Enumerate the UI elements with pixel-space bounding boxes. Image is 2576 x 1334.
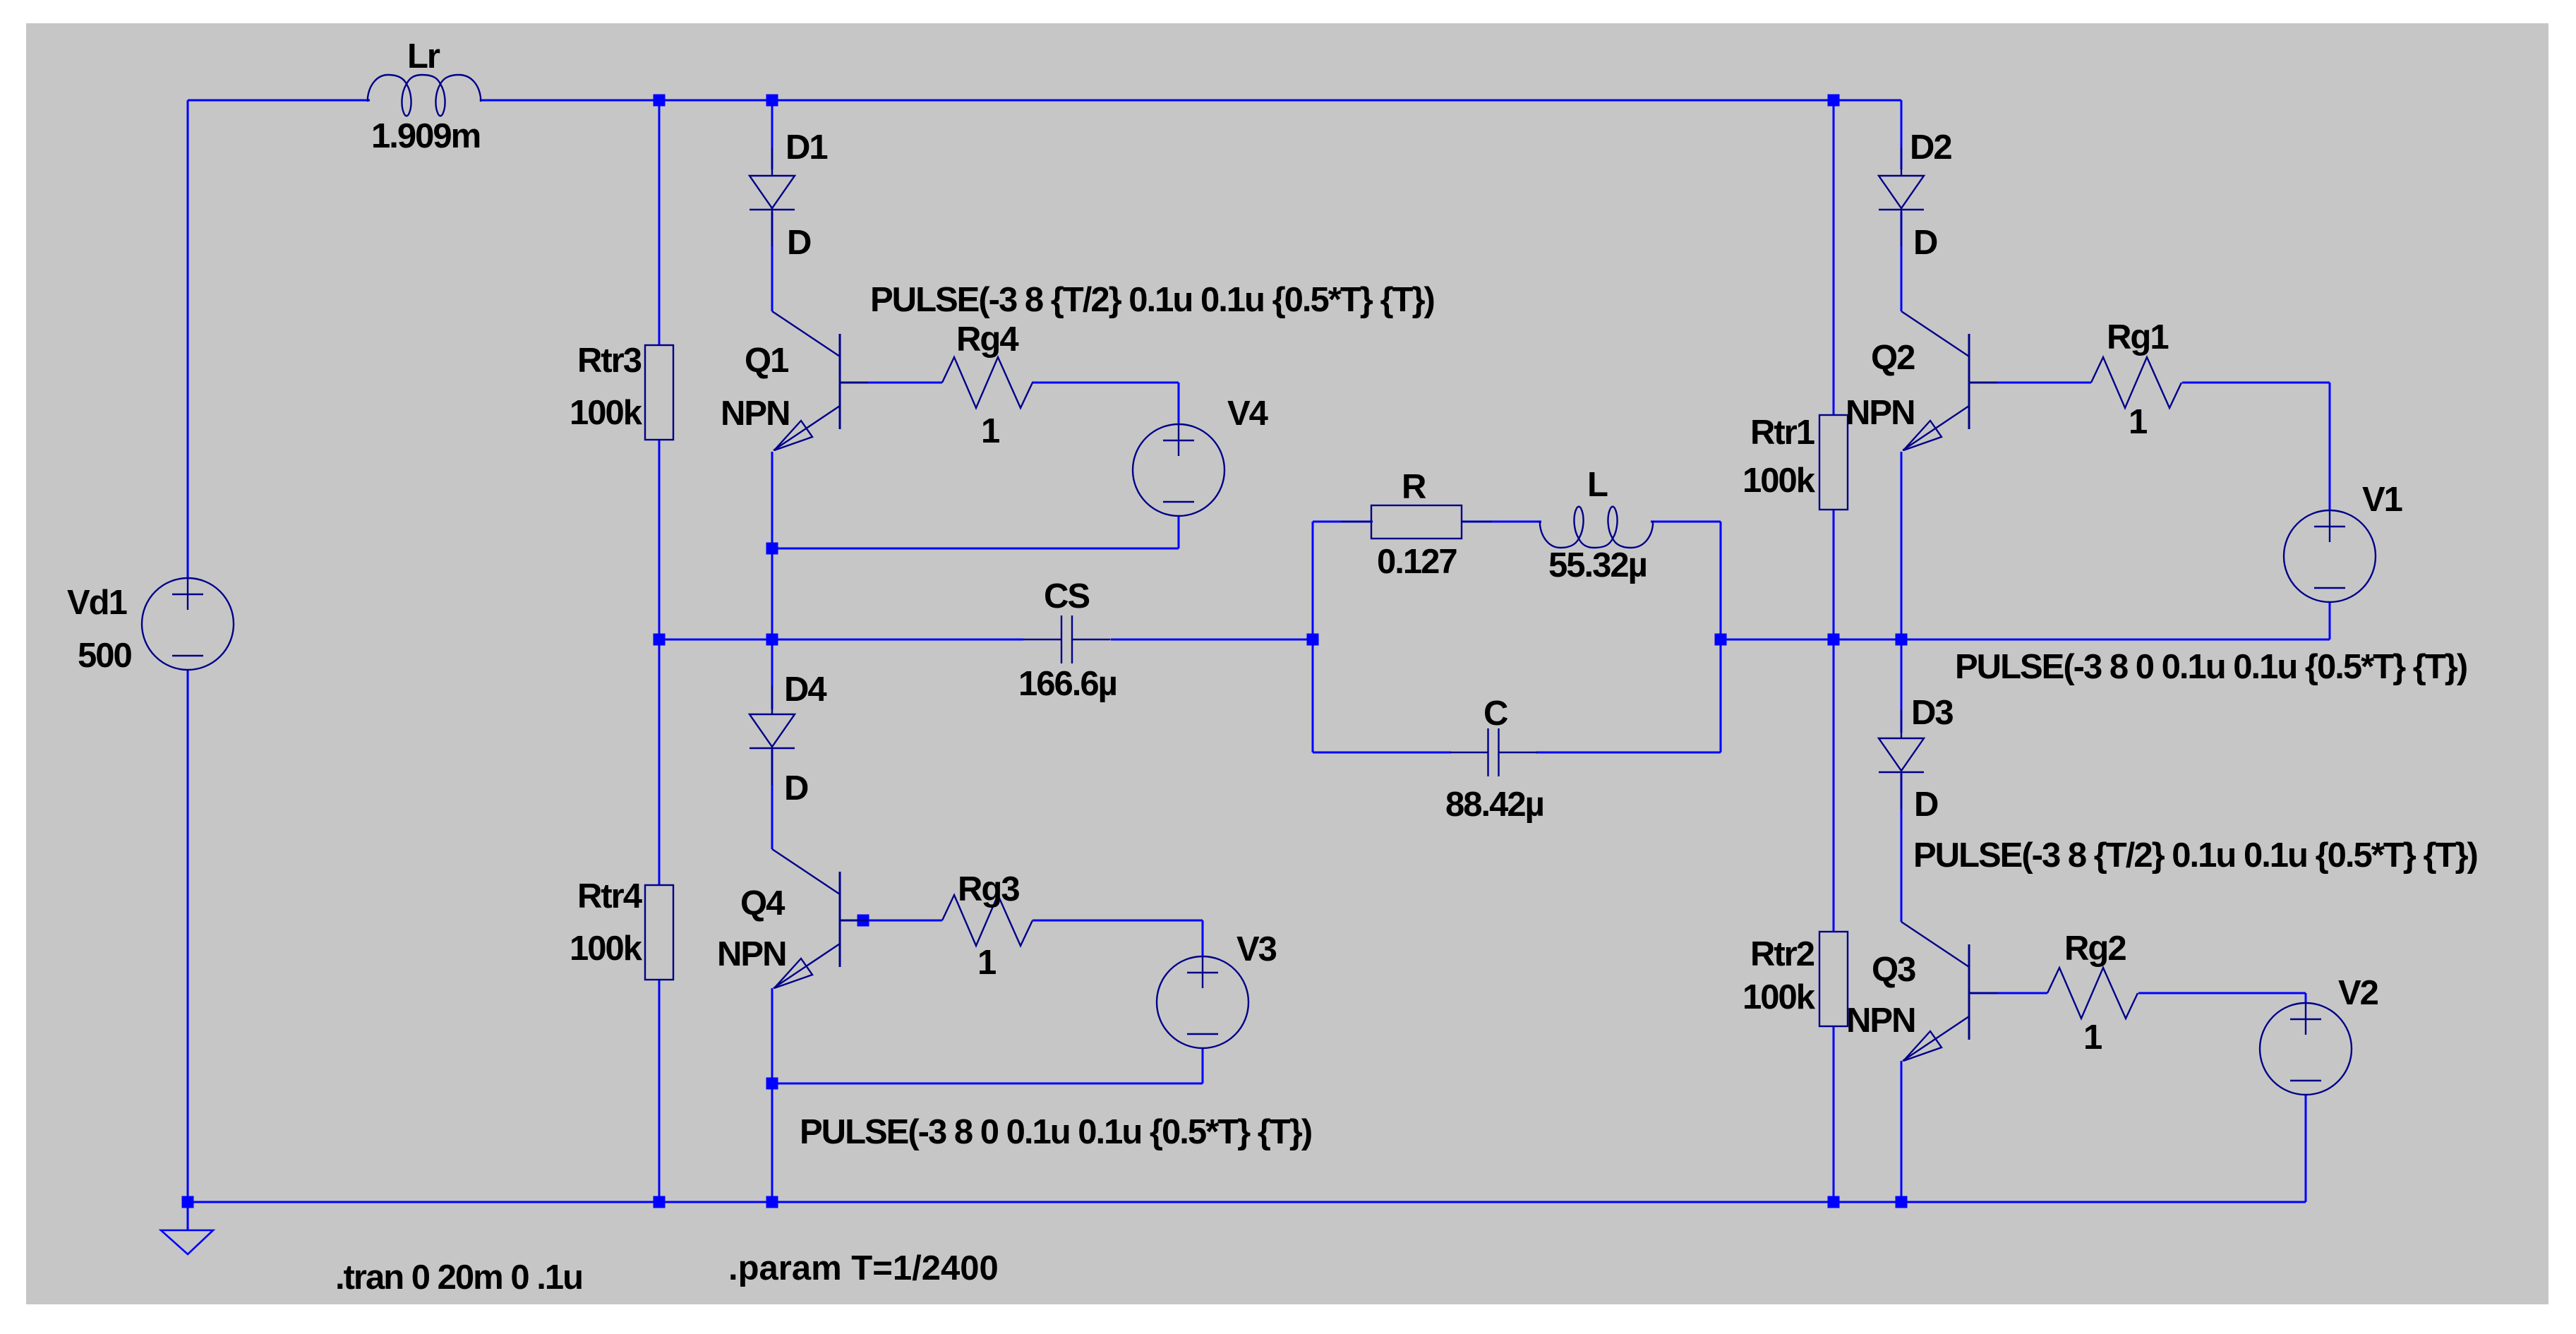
value 166.6u xyxy=(1018,665,1117,703)
svg-text:D: D xyxy=(1914,786,1938,824)
wire mid bus right of CS xyxy=(1111,639,1313,641)
svg-text:PULSE(-3 8 {T/2} 0.1u 0.1u {0.: PULSE(-3 8 {T/2} 0.1u 0.1u {0.5*T} {T}) xyxy=(1913,836,2477,875)
label Rtr4 xyxy=(577,877,642,915)
wire Q2 base to Rg1 xyxy=(1969,382,2091,384)
wire ground stub xyxy=(187,1202,189,1230)
wire Rtr2 to bottom bus xyxy=(1833,1026,1835,1202)
label Q3 xyxy=(1872,951,1915,989)
svg-text:D: D xyxy=(784,769,808,807)
wire D3 anode lead xyxy=(1901,639,1903,733)
value 1.909m xyxy=(371,117,480,155)
wire D3 to Q3 collector xyxy=(1901,774,1903,922)
svg-text:NPN: NPN xyxy=(1846,394,1914,432)
node Q4 base xyxy=(857,915,869,927)
node bottom bus / ground xyxy=(182,1196,194,1208)
wire D4 anode lead xyxy=(771,639,774,709)
voltage source V3 xyxy=(1157,956,1248,1048)
node Q4 emitter / V3 return xyxy=(766,1078,778,1090)
diode D3 xyxy=(1879,710,1924,809)
label D3 xyxy=(1911,694,1953,732)
transistor Q2 xyxy=(1901,311,1997,450)
wire V4 top lead xyxy=(1178,383,1180,425)
wire Rtr3 to mid bus xyxy=(658,439,661,639)
value PULSE of V4 xyxy=(870,281,1434,319)
value D of D1 xyxy=(787,224,811,262)
value 1 of Rg3 xyxy=(977,944,996,982)
transistor Q1 xyxy=(772,311,868,450)
wire tank left vertical xyxy=(1312,522,1314,752)
svg-text:V4: V4 xyxy=(1227,395,1268,433)
wire tank top to R xyxy=(1313,521,1373,523)
transistor Q3 xyxy=(1901,922,1997,1061)
svg-text:.tran 0 20m 0 .1u: .tran 0 20m 0 .1u xyxy=(335,1258,582,1297)
label Rg2 xyxy=(2064,930,2126,968)
svg-text:Rtr4: Rtr4 xyxy=(577,877,642,915)
label L xyxy=(1587,466,1608,504)
svg-text:Rg4: Rg4 xyxy=(956,320,1018,359)
wire D2 anode lead xyxy=(1901,100,1903,169)
svg-text:D1: D1 xyxy=(786,128,827,167)
voltage source V1 xyxy=(2284,510,2376,602)
svg-text:88.42µ: 88.42µ xyxy=(1445,786,1543,824)
svg-text:D: D xyxy=(787,224,811,262)
node mid bus / Q1-D4 xyxy=(766,634,778,646)
svg-text:Q2: Q2 xyxy=(1871,339,1915,377)
value D of D4 xyxy=(784,769,808,807)
svg-text:D3: D3 xyxy=(1911,694,1953,732)
node top bus / Rtr1 xyxy=(1828,95,1840,107)
label Q1 xyxy=(745,342,788,380)
svg-text:D: D xyxy=(1913,224,1937,262)
label C xyxy=(1483,695,1508,733)
wire L to tank right xyxy=(1651,521,1721,523)
svg-text:.param T=1/2400: .param T=1/2400 xyxy=(728,1249,999,1287)
value PULSE of V2 xyxy=(1913,836,2477,875)
svg-text:Lr: Lr xyxy=(407,37,440,76)
svg-text:V1: V1 xyxy=(2362,481,2402,519)
wire V4 return to emitter xyxy=(772,548,1179,550)
resistor Rg4 xyxy=(942,357,1033,408)
capacitor CS xyxy=(1023,615,1111,663)
node mid bus / Q2-D3 xyxy=(1896,634,1908,646)
diode D1 xyxy=(750,148,795,246)
label V3 xyxy=(1236,930,1277,968)
svg-text:55.32µ: 55.32µ xyxy=(1548,546,1647,584)
svg-text:100k: 100k xyxy=(1743,978,1816,1016)
value NPN of Q4 xyxy=(717,935,786,973)
svg-text:Q1: Q1 xyxy=(745,342,788,380)
label D4 xyxy=(784,671,826,709)
label Rtr2 xyxy=(1750,935,1814,973)
label Rtr3 xyxy=(577,342,642,380)
value 1 of Rg4 xyxy=(981,412,999,450)
value 100k Rtr3 xyxy=(570,394,643,432)
resistor Rtr3 xyxy=(645,345,673,440)
wire V1 bottom lead xyxy=(2329,602,2331,639)
svg-text:1: 1 xyxy=(977,944,996,982)
svg-text:166.6µ: 166.6µ xyxy=(1018,665,1117,703)
label Rg3 xyxy=(958,870,1019,908)
label V2 xyxy=(2338,974,2378,1012)
resistor Rtr4 xyxy=(645,885,673,980)
svg-text:V3: V3 xyxy=(1236,930,1277,968)
label R xyxy=(1402,468,1426,506)
wire Q4 emitter column xyxy=(771,988,774,1202)
svg-text:C: C xyxy=(1483,695,1508,733)
value 88.42u xyxy=(1445,786,1543,824)
label Lr xyxy=(407,37,440,76)
node mid bus / Rtr3-Rtr4 xyxy=(654,634,666,646)
wire Rg1 to V1 xyxy=(2182,382,2330,384)
svg-text:100k: 100k xyxy=(570,930,643,968)
resistor Rg1 xyxy=(2091,357,2181,408)
svg-text:Rg3: Rg3 xyxy=(958,870,1019,908)
wire Q2 emitter column xyxy=(1901,452,1903,639)
value 100k Rtr1 xyxy=(1743,462,1816,500)
wire D2 to Q2 collector xyxy=(1901,212,1903,311)
value 100k Rtr2 xyxy=(1743,978,1816,1016)
value PULSE of V1 xyxy=(1955,648,2467,686)
inductor Lr xyxy=(368,75,481,116)
svg-text:CS: CS xyxy=(1044,577,1089,615)
label Rg1 xyxy=(2107,318,2168,356)
wire D1 anode lead xyxy=(771,100,774,169)
svg-text:PULSE(-3 8 {T/2} 0.1u 0.1u {0.: PULSE(-3 8 {T/2} 0.1u 0.1u {0.5*T} {T}) xyxy=(870,281,1434,319)
diode D4 xyxy=(750,686,795,785)
wire V1 top lead xyxy=(2329,383,2331,510)
resistor Rtr2 xyxy=(1819,932,1848,1026)
svg-text:PULSE(-3 8 0 0.1u 0.1u {0.5*T}: PULSE(-3 8 0 0.1u 0.1u {0.5*T} {T}) xyxy=(800,1113,1311,1151)
wire top bus right segment xyxy=(481,100,1901,102)
wire Q1 emitter column xyxy=(771,452,774,639)
wire Q3 base to Rg2 xyxy=(1969,992,2047,995)
svg-text:1: 1 xyxy=(2083,1018,2102,1057)
capacitor C xyxy=(1450,728,1537,776)
wire Rtr2 column top xyxy=(1833,639,1835,932)
label Rtr1 xyxy=(1750,414,1814,452)
voltage source Vd1 xyxy=(142,578,234,670)
svg-text:Rtr2: Rtr2 xyxy=(1750,935,1814,973)
svg-text:NPN: NPN xyxy=(717,935,786,973)
wire top bus left segment xyxy=(188,100,370,102)
value D of D2 xyxy=(1913,224,1937,262)
svg-text:R: R xyxy=(1402,468,1426,506)
svg-text:L: L xyxy=(1587,466,1608,504)
value 55.32u xyxy=(1548,546,1647,584)
label Q2 xyxy=(1871,339,1915,377)
svg-text:Rtr3: Rtr3 xyxy=(577,342,642,380)
wire bottom bus xyxy=(188,1201,2306,1203)
svg-text:100k: 100k xyxy=(570,394,643,432)
node top bus / Rtr3 xyxy=(654,95,666,107)
svg-text:1: 1 xyxy=(981,412,999,450)
value 1 of Rg1 xyxy=(2129,403,2147,441)
svg-text:1.909m: 1.909m xyxy=(371,117,480,155)
wire Q4 base to Rg3 xyxy=(840,920,942,922)
label Q4 xyxy=(740,884,785,923)
value 500 xyxy=(78,637,132,675)
svg-text:D4: D4 xyxy=(784,671,826,709)
wire tank bottom to C xyxy=(1313,752,1451,754)
wire R to L xyxy=(1462,521,1541,523)
resistor R xyxy=(1341,505,1492,539)
resistor Rg2 xyxy=(2047,968,2138,1018)
wire V3 top lead xyxy=(1202,920,1204,957)
resistor Rtr1 xyxy=(1819,415,1848,510)
wire V2 bottom lead xyxy=(2305,1094,2307,1202)
svg-text:100k: 100k xyxy=(1743,462,1816,500)
value NPN of Q2 xyxy=(1846,394,1914,432)
value D of D3 xyxy=(1914,786,1938,824)
node mid bus / Rtr1-Rtr2 xyxy=(1828,634,1840,646)
label Vd1 xyxy=(67,584,127,622)
inductor L xyxy=(1540,507,1653,548)
node bottom bus / Q3 xyxy=(1896,1196,1908,1208)
wire mid bus right side xyxy=(1721,639,2330,641)
node bottom bus / Q4 xyxy=(766,1196,778,1208)
svg-text:Rg2: Rg2 xyxy=(2064,930,2126,968)
wire tank right vertical xyxy=(1720,522,1722,752)
svg-text:500: 500 xyxy=(78,637,132,675)
ground xyxy=(161,1230,213,1254)
wire D1 to Q1 collector xyxy=(771,212,774,311)
node bottom bus / Rtr2 xyxy=(1828,1196,1840,1208)
wire Rtr4 column top xyxy=(658,639,661,886)
svg-text:Q4: Q4 xyxy=(740,884,785,923)
value NPN of Q1 xyxy=(721,395,789,433)
wire left column lower xyxy=(187,669,189,1202)
diode D2 xyxy=(1879,148,1924,246)
wire V4 bottom lead xyxy=(1178,515,1180,548)
transistor Q4 xyxy=(772,849,868,988)
voltage source V2 xyxy=(2260,1003,2352,1095)
wire D4 to Q4 collector xyxy=(771,750,774,849)
value PULSE of V3 xyxy=(800,1113,1311,1151)
svg-text:V2: V2 xyxy=(2338,974,2378,1012)
wire Rg2 to V2 xyxy=(2138,992,2306,995)
node Q1 emitter / V4 return xyxy=(766,543,778,555)
wire Rtr1 column top xyxy=(1833,100,1835,415)
directive .tran xyxy=(335,1258,582,1297)
svg-text:NPN: NPN xyxy=(721,395,789,433)
svg-text:1: 1 xyxy=(2129,403,2147,441)
svg-text:Rg1: Rg1 xyxy=(2107,318,2168,356)
svg-text:Rtr1: Rtr1 xyxy=(1750,414,1814,452)
label V4 xyxy=(1227,395,1268,433)
node top bus / D1 xyxy=(766,95,778,107)
svg-text:0.127: 0.127 xyxy=(1377,543,1457,581)
svg-text:PULSE(-3 8 0 0.1u 0.1u {0.5*T}: PULSE(-3 8 0 0.1u 0.1u {0.5*T} {T}) xyxy=(1955,648,2467,686)
wire V2 top lead xyxy=(2305,993,2307,1004)
value 0.127 xyxy=(1377,543,1457,581)
svg-text:Q3: Q3 xyxy=(1872,951,1915,989)
value NPN of Q3 xyxy=(1846,1002,1915,1040)
node mid bus / tank left xyxy=(1307,634,1319,646)
directive .param xyxy=(728,1249,999,1287)
wire Rtr1 to mid bus xyxy=(1833,509,1835,639)
wire Rtr3 column top xyxy=(658,100,661,346)
resistor Rg3 xyxy=(942,895,1033,946)
svg-text:D2: D2 xyxy=(1910,128,1951,167)
label D1 xyxy=(786,128,827,167)
wire Q1 base to Rg4 xyxy=(840,382,942,384)
wire Rg4 to V4 xyxy=(1032,382,1179,384)
wire C to tank right xyxy=(1536,752,1721,754)
voltage source V4 xyxy=(1133,424,1224,516)
wire V3 return to emitter xyxy=(772,1083,1203,1085)
wire Rg3 to V3 xyxy=(1033,920,1203,922)
wire mid bus left of CS xyxy=(659,639,1023,641)
wire V3 bottom lead xyxy=(1202,1047,1204,1083)
label D2 xyxy=(1910,128,1951,167)
node mid bus / tank right xyxy=(1715,634,1727,646)
wire left column upper xyxy=(187,100,189,579)
value 100k Rtr4 xyxy=(570,930,643,968)
svg-text:Vd1: Vd1 xyxy=(67,584,127,622)
wire Q3 emitter column xyxy=(1901,1061,1903,1202)
label CS xyxy=(1044,577,1089,615)
value 1 of Rg2 xyxy=(2083,1018,2102,1057)
node bottom bus / Rtr4 xyxy=(654,1196,666,1208)
wire Rtr4 to bottom bus xyxy=(658,979,661,1202)
svg-text:NPN: NPN xyxy=(1846,1002,1915,1040)
label V1 xyxy=(2362,481,2402,519)
label Rg4 xyxy=(956,320,1018,359)
